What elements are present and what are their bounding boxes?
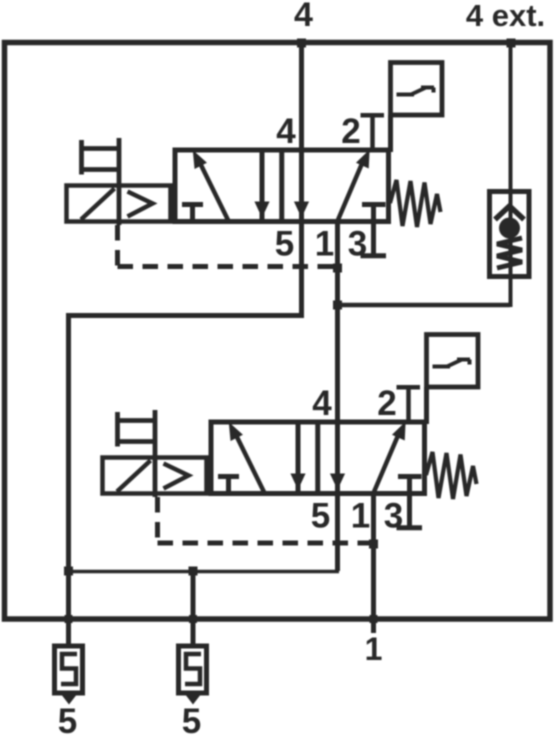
svg-text:1: 1: [315, 225, 334, 264]
valve V2: [103, 335, 479, 544]
svg-text:1: 1: [351, 497, 370, 536]
silencer 2 baffle: [185, 654, 201, 684]
V1 port 3 stub capped: [361, 221, 387, 256]
svg-text:2: 2: [377, 384, 396, 423]
solenoid slash V1: [81, 189, 115, 220]
node check branch: [333, 301, 342, 310]
wire check valve upper: [509, 42, 513, 192]
wire valve2 port1 to bottom: [371, 493, 376, 633]
check valve seat: [495, 206, 524, 220]
silencer 1 baffle: [61, 654, 77, 684]
pilot line V1 (dashed): [118, 225, 337, 267]
node on frame port 4: [297, 39, 306, 48]
svg-text:5: 5: [311, 497, 330, 536]
silencer 2 body: [179, 646, 207, 693]
V1 pass path 4-5 (arrow down): [299, 150, 304, 221]
V1 exhaust path left (arrow down): [260, 150, 265, 221]
V2 blocked port T right: [398, 477, 422, 494]
V2 exhaust path left (arrow down): [296, 422, 301, 493]
V2 port 3 stub capped: [397, 493, 423, 528]
V1 switch connector: [388, 115, 393, 152]
V1 blocked port T left: [182, 205, 203, 222]
wire port4 drop: [299, 42, 304, 150]
svg-text:4: 4: [312, 384, 332, 423]
svg-text:4 ext.: 4 ext.: [466, 0, 545, 33]
V1 flow path diagonal left: [199, 161, 229, 221]
V2 switch connector: [424, 387, 429, 424]
svg-text:1: 1: [365, 631, 383, 667]
valve V2 position divider: [315, 422, 320, 493]
V2 port 2 stub capped: [397, 387, 421, 422]
V1 port 2 stub capped: [361, 115, 385, 150]
pilot line V2 (dashed): [158, 497, 373, 543]
solenoid coil V1: [67, 186, 171, 222]
valve V1 body: [175, 150, 389, 222]
manual override V2: [116, 410, 155, 497]
svg-text:3: 3: [384, 497, 403, 536]
node frame port1: [370, 615, 378, 623]
check valve ball: [499, 218, 520, 239]
V2 flow path diagonal right 1-2: [374, 432, 400, 493]
V2 flow path diagonal left: [235, 433, 265, 493]
node frame silencer2: [189, 615, 197, 623]
silencer 2 outlet arrow: [185, 694, 202, 705]
svg-text:5: 5: [275, 225, 294, 264]
svg-text:5: 5: [182, 702, 201, 741]
svg-text:4: 4: [276, 112, 296, 151]
valve V1: [67, 63, 443, 267]
wire branch to check valve: [335, 303, 510, 308]
switch contact V1: [397, 88, 435, 95]
check valve CV body: [490, 192, 530, 277]
solenoid chevron V2: [164, 464, 189, 489]
wire trunk valve1 port1 to valve2 port4: [335, 221, 340, 422]
V2 pass path 4-5 (arrow down): [335, 422, 340, 493]
node exhaust silencer2 branch: [189, 567, 198, 576]
silencer 1 body: [55, 646, 83, 693]
node exhaust at trunk: [64, 567, 73, 576]
check valve spring: [497, 238, 522, 268]
node on frame port 4 ext: [507, 39, 516, 48]
V2 blocked port T left: [218, 477, 239, 494]
switch contact V2: [433, 360, 471, 367]
wire valve1 exhaust 5 run: [69, 219, 302, 646]
V1 blocked port T right: [362, 205, 386, 222]
solenoid coil V2: [103, 458, 207, 494]
node frame silencer1: [65, 615, 73, 623]
check valve through line: [509, 192, 513, 277]
valve V1 position divider: [279, 150, 284, 221]
V2 return spring: [426, 452, 477, 499]
silencer 1 outlet arrow: [61, 694, 78, 705]
svg-text:5: 5: [58, 702, 77, 741]
pressure switch box V2: [427, 335, 479, 388]
wire valve2 through to exhaust: [335, 493, 340, 571]
solenoid slash V2: [117, 461, 151, 492]
node pilot2 tap: [369, 540, 378, 549]
V1 flow path diagonal right 1-2: [338, 160, 364, 221]
svg-text:2: 2: [341, 112, 360, 151]
valve V2 body: [211, 422, 425, 494]
wire exhaust header (thin): [66, 570, 339, 574]
pressure switch box V1: [391, 63, 443, 116]
svg-text:3: 3: [348, 225, 367, 264]
enclosure frame: [5, 43, 551, 620]
wire check valve lower: [509, 276, 513, 307]
node pilot1 tap: [333, 264, 342, 273]
V1 return spring: [390, 180, 441, 227]
wire silencer2 drop: [191, 571, 196, 646]
manual override V1: [80, 138, 119, 225]
svg-text:4: 4: [294, 0, 313, 34]
solenoid chevron V1: [128, 192, 153, 217]
